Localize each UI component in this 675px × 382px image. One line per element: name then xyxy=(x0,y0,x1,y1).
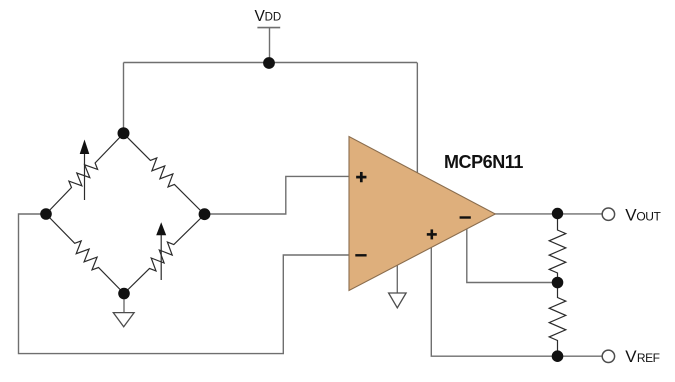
svg-text:V: V xyxy=(625,347,637,366)
svg-text:DD: DD xyxy=(265,12,282,24)
svg-text:REF: REF xyxy=(637,351,660,365)
svg-text:OUT: OUT xyxy=(636,209,661,223)
svg-text:MCP6N11: MCP6N11 xyxy=(444,152,523,172)
